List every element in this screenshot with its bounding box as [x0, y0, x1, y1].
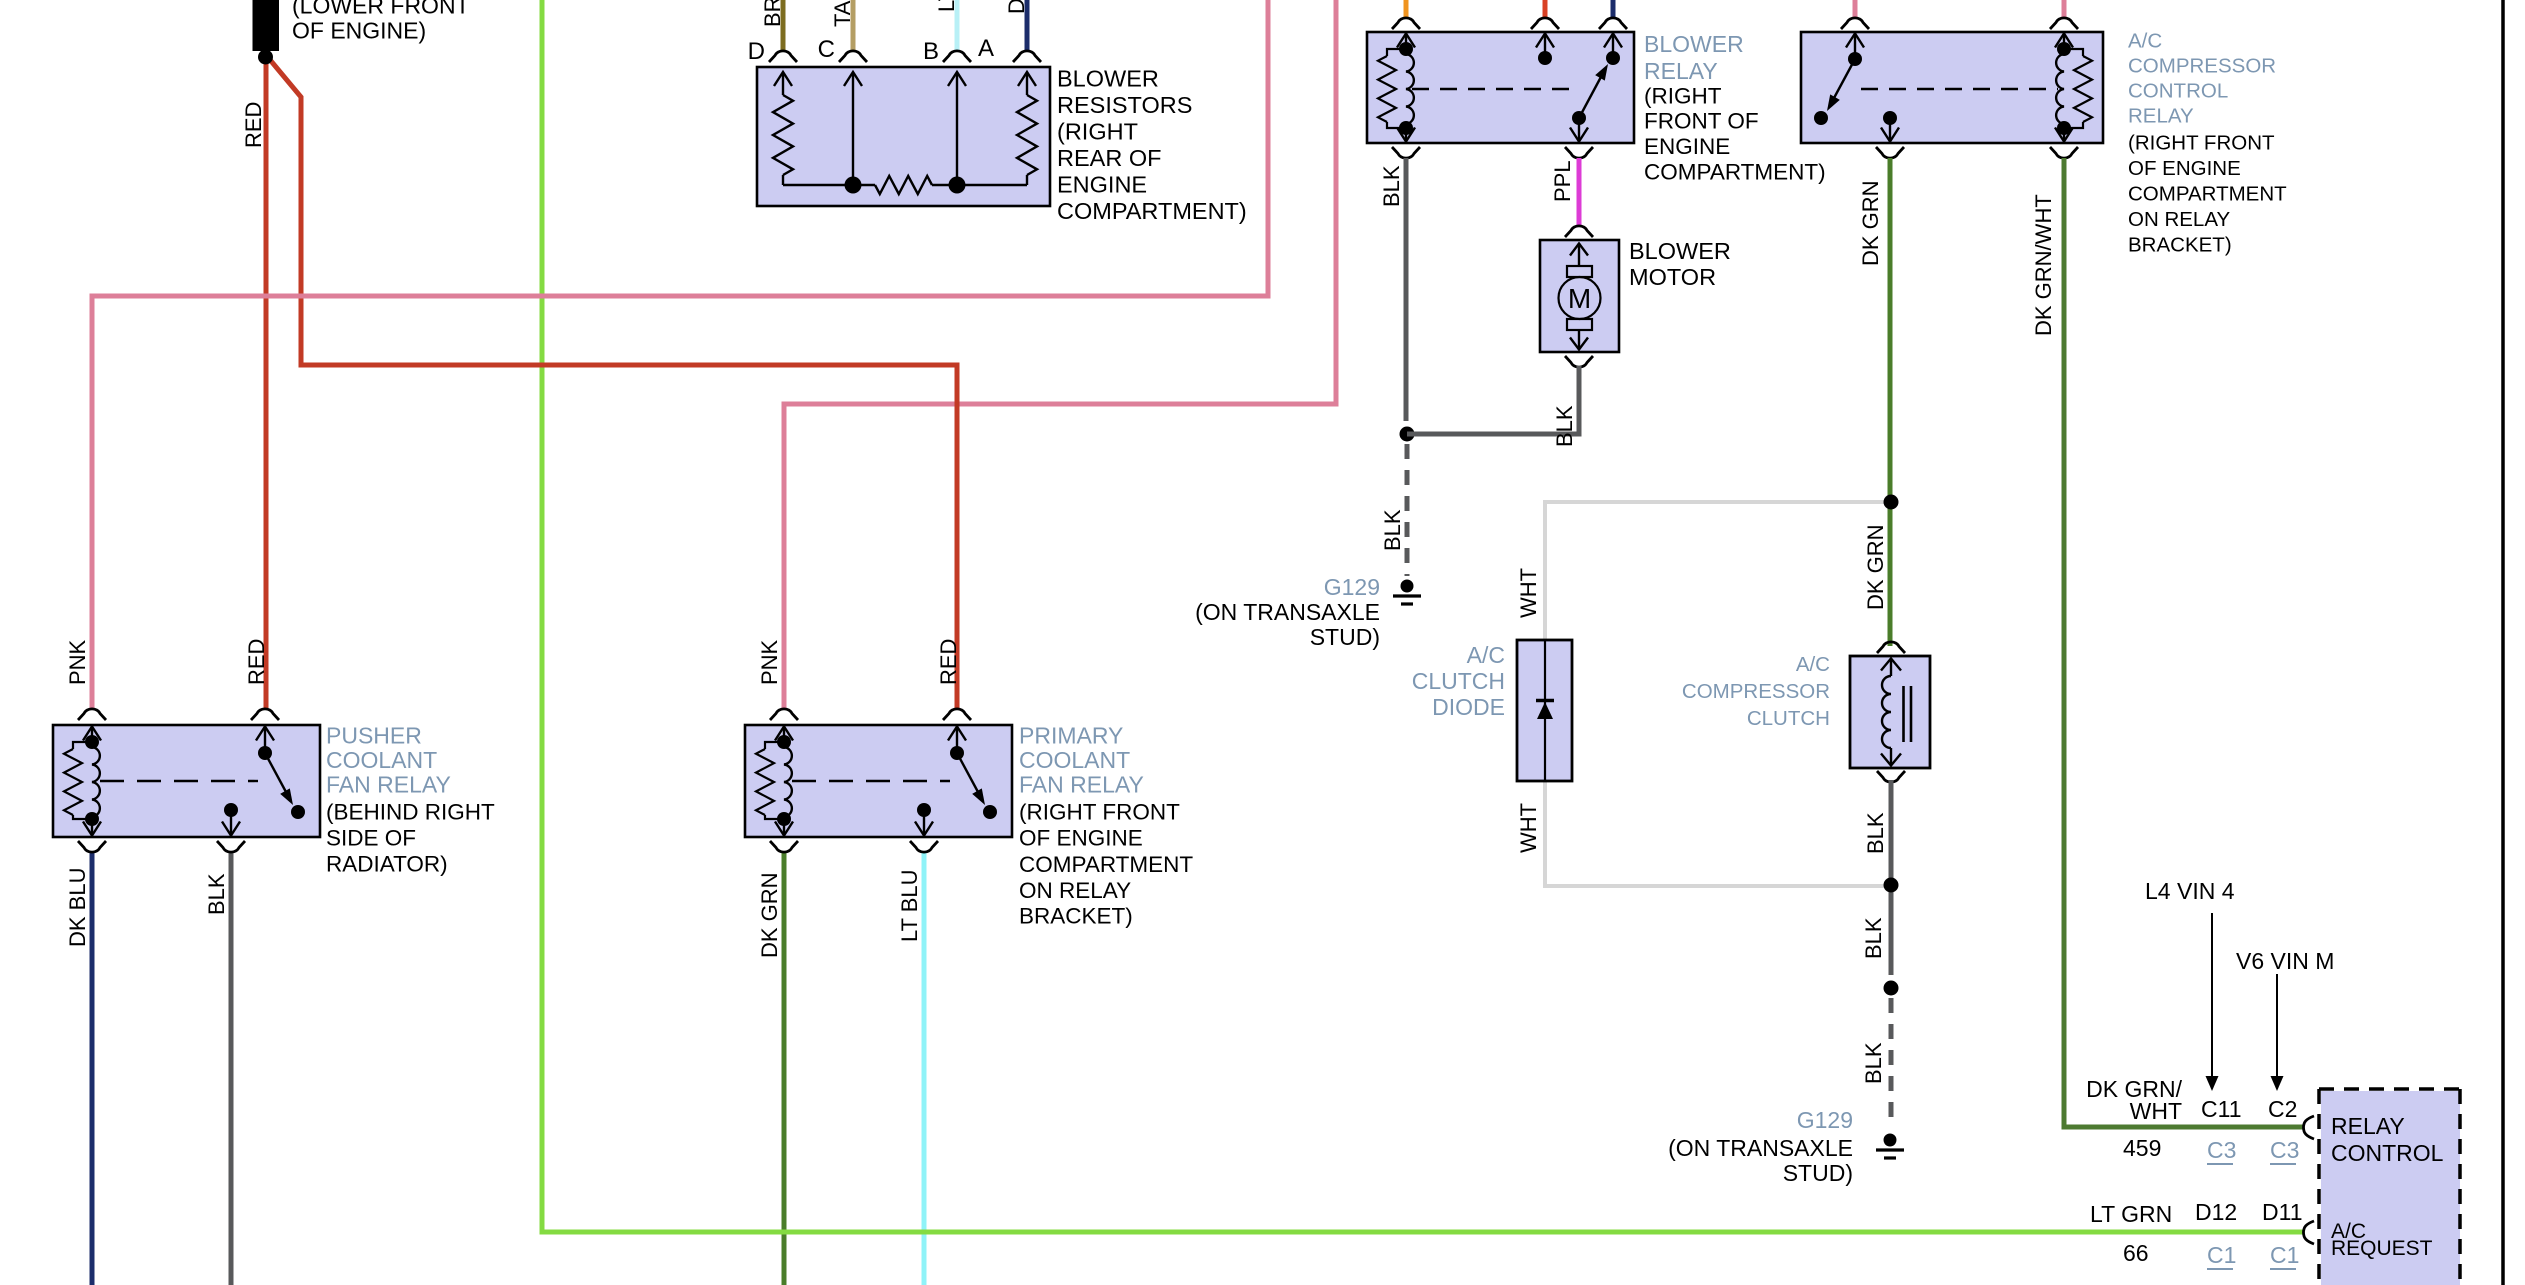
- svg-text:SIDE OF: SIDE OF: [326, 826, 416, 851]
- svg-text:DK GRN: DK GRN: [757, 872, 782, 958]
- A/C relay switch blade: [1834, 59, 1855, 98]
- wire PNK to pusher coolant fan relay pin 86: [92, 0, 1268, 708]
- svg-text:RESISTORS: RESISTORS: [1057, 92, 1192, 118]
- svg-text:C1: C1: [2270, 1242, 2299, 1268]
- primary relay switch output post: [923, 810, 925, 835]
- arrow V6 VIN M: [2276, 974, 2278, 1078]
- blower motor top connector: [1565, 226, 1593, 237]
- svg-text:V6 VIN M: V6 VIN M: [2236, 948, 2334, 974]
- wire PNK to primary coolant fan relay pin 86: [784, 0, 1336, 708]
- pusher relay top connector RED: [251, 709, 279, 720]
- A/C compressor clutch plates: [1902, 686, 1905, 742]
- svg-text:LT GRN: LT GRN: [2090, 1201, 2172, 1227]
- A/C relay pin 86 bottom connector: [2050, 147, 2078, 158]
- A/C relay coil: [2063, 33, 2065, 54]
- svg-text:PUSHER: PUSHER: [326, 723, 422, 749]
- pusher relay switch common post: [264, 726, 266, 753]
- A/C compressor clutch top connector: [1877, 642, 1905, 653]
- svg-text:ENGINE: ENGINE: [1644, 134, 1730, 159]
- svg-text:D12: D12: [2195, 1199, 2237, 1225]
- A/C compressor clutch switch (lower front of engine) partial component: [253, 0, 280, 51]
- svg-text:RELAY: RELAY: [1644, 58, 1718, 84]
- primary relay bottom connector DK GRN: [770, 841, 798, 852]
- svg-text:(ON TRANSAXLE: (ON TRANSAXLE: [1668, 1135, 1853, 1161]
- wire BLK blower relay to splice: [1404, 158, 1409, 421]
- primary relay coil bottom junction: [777, 812, 791, 826]
- wire DK GRN/WHT A/C relay to PCM relay control: [2064, 158, 2303, 1127]
- svg-text:ENGINE: ENGINE: [1057, 172, 1147, 198]
- svg-text:(RIGHT FRONT: (RIGHT FRONT: [2128, 132, 2275, 155]
- blower relay pin 30 wire RED stub: [1543, 0, 1548, 18]
- blower resistors box: [757, 67, 1050, 206]
- blower relay box: [1367, 32, 1634, 143]
- svg-text:(RIGHT: (RIGHT: [1644, 84, 1722, 109]
- svg-text:RELAY: RELAY: [2128, 105, 2194, 128]
- svg-text:FAN RELAY: FAN RELAY: [1019, 772, 1144, 798]
- svg-text:ON RELAY: ON RELAY: [1019, 878, 1131, 903]
- right border line: [2501, 0, 2505, 1285]
- svg-text:PNK: PNK: [757, 639, 782, 685]
- A/C relay pin 85 connector: [2050, 18, 2078, 29]
- primary relay bottom connector LT BLU: [910, 841, 938, 852]
- svg-text:COOLANT: COOLANT: [1019, 747, 1130, 773]
- wire LT GRN A/C request: [542, 0, 2303, 1232]
- wire BLK dashed to G129 lower: [1889, 998, 1894, 1123]
- svg-text:BLOWER: BLOWER: [1057, 66, 1159, 92]
- blower relay switch blade: [1579, 75, 1602, 118]
- blower relay switch output post: [1578, 118, 1580, 141]
- svg-text:OF ENGINE: OF ENGINE: [2128, 157, 2241, 180]
- svg-text:COMPARTMENT): COMPARTMENT): [1644, 160, 1826, 185]
- svg-text:COMPARTMENT: COMPARTMENT: [2128, 183, 2287, 206]
- blower relay coil resistor: [1387, 49, 1406, 56]
- splice DK GRN WHT loop: [1884, 495, 1899, 510]
- svg-text:C2: C2: [2268, 1096, 2297, 1122]
- svg-text:COMPARTMENT: COMPARTMENT: [1019, 852, 1193, 877]
- svg-text:BRACKET): BRACKET): [2128, 234, 2232, 257]
- svg-text:FRONT OF: FRONT OF: [1644, 109, 1759, 134]
- svg-text:PRIMARY: PRIMARY: [1019, 723, 1123, 749]
- blower relay pin 30 connector: [1531, 18, 1559, 29]
- svg-text:DK BLU: DK BLU: [1004, 0, 1029, 14]
- pusher relay dashed link: [100, 780, 258, 782]
- svg-text:STUD): STUD): [1783, 1160, 1853, 1186]
- svg-text:ON RELAY: ON RELAY: [2128, 208, 2230, 231]
- wire BLK dashed to G129: [1405, 444, 1410, 576]
- svg-text:DK BLU: DK BLU: [65, 868, 90, 947]
- svg-text:RED: RED: [936, 639, 961, 685]
- wire BLK pusher relay: [229, 851, 234, 1285]
- svg-text:C1: C1: [2207, 1242, 2236, 1268]
- pusher relay coil top junction: [85, 735, 99, 749]
- blower relay pin 85 bottom connector: [1392, 147, 1420, 158]
- wire WHT diode loop top: [1545, 502, 1891, 644]
- svg-text:C3: C3: [2270, 1137, 2299, 1163]
- svg-text:COOLANT: COOLANT: [326, 747, 437, 773]
- blower motor box: [1540, 240, 1619, 352]
- blower resistors pin B wire LT BLU stub: [955, 0, 960, 50]
- svg-text:BRACKET): BRACKET): [1019, 904, 1133, 929]
- junction splice on RED wire: [258, 50, 273, 65]
- svg-text:CLUTCH: CLUTCH: [1747, 707, 1830, 730]
- blower resistors internal resistor D: [773, 95, 793, 175]
- svg-text:D11: D11: [2262, 1199, 2303, 1225]
- svg-text:OF ENGINE: OF ENGINE: [1019, 826, 1143, 851]
- pusher relay bottom connector DK BLU: [78, 841, 106, 852]
- PCM box (dashed): [2321, 1091, 2460, 1285]
- pusher relay switch blade: [265, 753, 286, 792]
- svg-text:BLOWER: BLOWER: [1629, 238, 1731, 264]
- blower motor bottom connector: [1565, 356, 1593, 367]
- svg-text:CONTROL: CONTROL: [2128, 80, 2228, 103]
- pin D connector: [769, 51, 797, 62]
- splice WHT loop bottom: [1884, 878, 1899, 893]
- svg-text:WHT: WHT: [2130, 1098, 2182, 1124]
- svg-text:BLK: BLK: [1379, 165, 1404, 207]
- primary relay coil top junction: [777, 735, 791, 749]
- A/C compressor clutch box: [1850, 656, 1930, 768]
- blower resistors internal bus: [783, 184, 875, 186]
- svg-text:RED: RED: [241, 102, 266, 148]
- svg-text:PPL: PPL: [1550, 160, 1575, 202]
- splice BLK dashed: [1884, 981, 1899, 996]
- pusher relay switch output post: [230, 810, 232, 835]
- wire BLK blower motor: [1577, 366, 1582, 434]
- blower relay pin 85 connector: [1392, 18, 1420, 29]
- diode D1 symbol: [1544, 640, 1546, 781]
- svg-text:DK GRN: DK GRN: [1858, 180, 1883, 266]
- wire WHT diode loop bottom: [1545, 777, 1891, 886]
- relay control connector brace: [2304, 1116, 2315, 1139]
- pusher coolant fan relay top connector PNK: [78, 709, 106, 720]
- svg-text:LT BLU: LT BLU: [934, 0, 959, 12]
- ground G129 lower: [1884, 1134, 1897, 1147]
- pusher coolant fan relay box: [53, 725, 320, 837]
- svg-text:STUD): STUD): [1310, 624, 1380, 650]
- pin A connector: [1013, 51, 1041, 62]
- primary relay switch blade: [957, 753, 978, 792]
- svg-text:C11: C11: [2201, 1096, 2242, 1122]
- wire BLK splice to blower motor: [1407, 366, 1579, 434]
- blower resistors internal resistor A: [1017, 95, 1037, 175]
- svg-text:PNK: PNK: [65, 639, 90, 685]
- svg-text:LT BLU: LT BLU: [897, 869, 922, 942]
- pin C internal wire: [852, 72, 854, 185]
- pusher relay bottom connector BLK: [217, 841, 245, 852]
- svg-text:A/C: A/C: [2128, 30, 2162, 53]
- blower resistors pin A wire DK BLU stub: [1025, 0, 1030, 50]
- primary coolant fan relay box: [745, 725, 1012, 837]
- blower relay pin 87a bottom connector: [1565, 147, 1593, 158]
- pusher relay coil: [91, 726, 93, 747]
- svg-text:FAN RELAY: FAN RELAY: [326, 772, 451, 798]
- svg-text:A/C: A/C: [1467, 642, 1505, 668]
- pin C connector: [839, 51, 867, 62]
- blower relay dashed link: [1412, 88, 1572, 90]
- bus junction at pin B: [949, 177, 966, 194]
- primary relay coil resistor: [765, 742, 784, 749]
- bus junction at pin C: [845, 177, 862, 194]
- A/C relay dashed link: [1861, 88, 2058, 90]
- svg-text:BLK: BLK: [1380, 509, 1405, 551]
- svg-text:G129: G129: [1324, 574, 1380, 600]
- A/C compressor clutch bottom connector: [1877, 771, 1905, 782]
- A/C relay pin 85 wire PNK stub: [2062, 0, 2067, 18]
- arrow L4 VIN 4: [2211, 913, 2213, 1078]
- A/C compressor control relay box: [1801, 32, 2103, 143]
- primary relay coil: [783, 726, 785, 747]
- svg-text:WHT: WHT: [1516, 568, 1541, 618]
- svg-text:B: B: [923, 38, 939, 65]
- svg-text:BRN: BRN: [760, 0, 785, 27]
- svg-text:DK GRN: DK GRN: [1863, 524, 1888, 610]
- blower resistors pin C wire TAN stub: [851, 0, 856, 50]
- svg-text:BLK: BLK: [204, 873, 229, 915]
- A/C compressor clutch coil: [1890, 658, 1892, 676]
- primary relay dashed link: [792, 780, 950, 782]
- blower relay coil top junction: [1399, 42, 1413, 56]
- ground G129 upper: [1401, 580, 1414, 593]
- blower relay coil: [1405, 33, 1407, 54]
- svg-text:66: 66: [2123, 1240, 2149, 1266]
- blower relay pin 85 wire ORG stub: [1404, 0, 1409, 18]
- primary relay top connector RED: [943, 709, 971, 720]
- svg-text:459: 459: [2123, 1135, 2161, 1161]
- blower relay pin 87 connector: [1599, 18, 1627, 29]
- splice BLK: [1400, 427, 1415, 442]
- svg-text:CONTROL: CONTROL: [2331, 1140, 2444, 1166]
- A/C clutch diode box: [1517, 640, 1572, 781]
- svg-text:C: C: [818, 36, 835, 63]
- svg-text:BLK: BLK: [1861, 917, 1886, 959]
- svg-text:(BEHIND RIGHT: (BEHIND RIGHT: [326, 800, 495, 825]
- primary coolant fan relay top connector PNK: [770, 709, 798, 720]
- svg-text:CLUTCH: CLUTCH: [1412, 668, 1505, 694]
- svg-text:BLK: BLK: [1863, 812, 1888, 854]
- svg-text:G129: G129: [1797, 1107, 1853, 1133]
- A/C relay coil top junction: [2057, 42, 2071, 56]
- A/C relay coil bottom junction: [2057, 121, 2071, 135]
- pusher relay coil resistor: [73, 742, 92, 749]
- svg-text:(ON TRANSAXLE: (ON TRANSAXLE: [1195, 599, 1380, 625]
- pin B internal wire: [956, 72, 958, 185]
- blower resistors pin D wire BRN stub: [781, 0, 786, 50]
- wire DK GRN primary relay: [782, 851, 787, 1285]
- blower relay coil bottom junction: [1399, 121, 1413, 135]
- svg-text:OF ENGINE): OF ENGINE): [292, 18, 426, 44]
- blower relay pin 86 post: [1544, 33, 1546, 58]
- wire RED splice to primary coolant fan relay: [266, 55, 957, 708]
- svg-text:REQUEST: REQUEST: [2331, 1237, 2433, 1260]
- svg-text:(RIGHT FRONT: (RIGHT FRONT: [1019, 800, 1180, 825]
- svg-text:RED: RED: [244, 639, 269, 685]
- svg-text:DK GRN/WHT: DK GRN/WHT: [2031, 194, 2056, 336]
- svg-text:WHT: WHT: [1516, 803, 1541, 853]
- wire DK BLU pusher relay: [90, 851, 95, 1285]
- A/C relay coil resistor: [2064, 49, 2083, 56]
- blower resistors internal middle resistor: [875, 176, 932, 194]
- blower motor symbol: [1578, 243, 1580, 266]
- svg-text:TAN: TAN: [830, 0, 855, 27]
- wire RED splice to pusher coolant fan relay: [264, 55, 269, 708]
- svg-text:REAR OF: REAR OF: [1057, 145, 1161, 171]
- svg-text:DIODE: DIODE: [1432, 694, 1505, 720]
- A/C relay switch output post: [1889, 118, 1891, 141]
- svg-text:COMPRESSOR: COMPRESSOR: [2128, 55, 2276, 78]
- svg-text:(LOWER FRONT: (LOWER FRONT: [292, 0, 470, 19]
- svg-text:MOTOR: MOTOR: [1629, 264, 1716, 290]
- wire BLK clutch to splice: [1889, 780, 1894, 975]
- wire PPL blower relay to blower motor: [1577, 158, 1582, 226]
- A/C relay pin 87 bottom connector: [1876, 147, 1904, 158]
- svg-text:BLOWER: BLOWER: [1644, 31, 1744, 57]
- svg-text:BLK: BLK: [1861, 1042, 1886, 1084]
- svg-text:A: A: [978, 35, 994, 62]
- svg-text:D: D: [748, 38, 765, 65]
- svg-text:C3: C3: [2207, 1137, 2236, 1163]
- blower relay switch common post: [1612, 33, 1614, 58]
- svg-text:A/C: A/C: [1796, 653, 1830, 676]
- A/C relay pin 30 connector: [1841, 18, 1869, 29]
- svg-text:(RIGHT: (RIGHT: [1057, 119, 1138, 145]
- A/C request connector brace: [2304, 1221, 2315, 1244]
- svg-text:L4 VIN 4: L4 VIN 4: [2145, 878, 2235, 904]
- svg-text:COMPARTMENT): COMPARTMENT): [1057, 198, 1247, 224]
- pusher relay coil bottom junction: [85, 812, 99, 826]
- svg-text:RELAY: RELAY: [2331, 1113, 2405, 1139]
- svg-text:BLK: BLK: [1552, 405, 1577, 447]
- wire DK GRN A/C relay to clutch: [1888, 158, 1893, 646]
- blower relay pin 87 wire DK BLU stub: [1611, 0, 1616, 18]
- wire LT BLU primary relay: [922, 851, 927, 1285]
- svg-text:RADIATOR): RADIATOR): [326, 852, 448, 877]
- A/C relay pin 30 wire PNK stub: [1853, 0, 1858, 18]
- primary relay switch common post: [956, 726, 958, 753]
- A/C relay switch common post: [1854, 33, 1856, 59]
- svg-text:M: M: [1568, 283, 1591, 314]
- svg-text:COMPRESSOR: COMPRESSOR: [1682, 680, 1830, 703]
- pin B connector: [943, 51, 971, 62]
